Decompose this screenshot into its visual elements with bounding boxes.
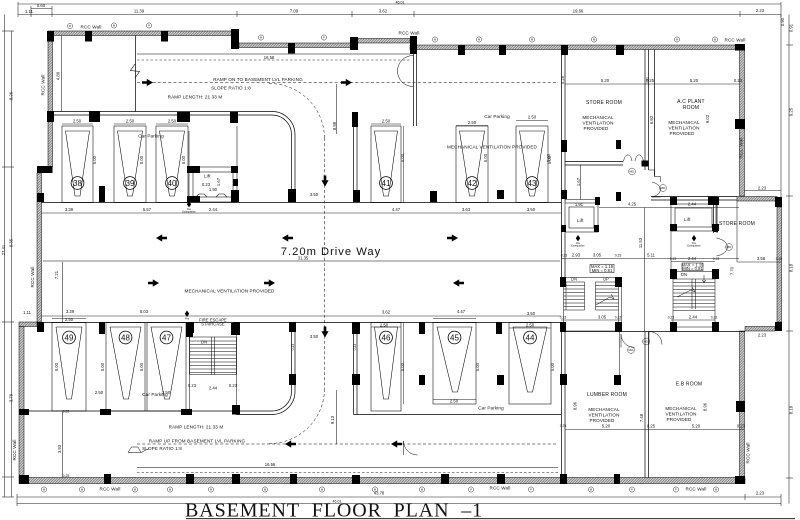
grid bubble letters [43,24,717,492]
svg-text:11.39: 11.39 [134,9,145,14]
svg-text:Extinguisher: Extinguisher [687,245,700,248]
svg-text:3.05: 3.05 [593,253,602,258]
interior structural lines [24,50,745,478]
svg-text:M: M [321,488,323,492]
svg-text:Car Parking: Car Parking [478,406,504,411]
svg-text:PROVIDED: PROVIDED [667,417,693,422]
dimension line right [781,15,793,504]
svg-text:0.90: 0.90 [780,17,785,26]
svg-text:P: P [470,488,472,492]
stall top dim ticks row1 [52,121,551,400]
vestibule wall [413,50,415,127]
door vestibule [398,56,414,87]
svg-text:2.44: 2.44 [688,256,697,261]
svg-text:M: M [69,24,71,28]
svg-text:M01: M01 [643,340,649,344]
corridor east wall [353,112,355,203]
svg-text:2.23: 2.23 [758,333,767,338]
svg-text:0.23: 0.23 [737,424,746,429]
top wall segment B [239,43,356,48]
svg-text:MECHANICAL VENTILATION PROVI: MECHANICAL VENTILATION PROVIDED [185,289,276,294]
svg-text:UP: UP [603,277,609,282]
svg-text:MECHANICAL: MECHANICAL [582,115,614,120]
svg-text:3.93: 3.93 [57,444,62,453]
svg-text:7.09: 7.09 [290,9,299,14]
svg-text:5.00: 5.00 [92,155,97,164]
svg-text:5.11: 5.11 [647,253,656,258]
svg-text:RAMP LENGTH: 21.33 M: RAMP LENGTH: 21.33 M [168,95,223,100]
door pair store room top [624,155,644,162]
svg-text:0.23: 0.23 [670,257,677,261]
dimension labels top [25,0,765,14]
svg-text:0.60: 0.60 [37,3,46,8]
svg-text:5.00: 5.00 [139,155,144,164]
row2 bottom edge / lower lane wall [24,410,232,412]
svg-text:40: 40 [168,179,177,188]
row2 top edge [42,322,562,324]
svg-text:2.23: 2.23 [756,8,765,13]
door ac plant [649,170,661,197]
svg-text:RAMP ON TO BASEMENT LVL P: RAMP ON TO BASEMENT LVL PARKING [213,77,303,82]
svg-text:2.44: 2.44 [209,386,218,391]
svg-text:2.50: 2.50 [450,399,459,404]
mid dim row (drive way) [42,213,562,316]
svg-text:VENTILATION: VENTILATION [668,126,699,131]
row1 stall numbers [71,177,538,190]
svg-text:Car Parking: Car Parking [138,134,164,139]
svg-text:5.20: 5.20 [601,78,610,83]
svg-text:3.50: 3.50 [527,311,536,316]
svg-text:E.B ROOM: E.B ROOM [676,382,703,388]
svg-text:BASEMENT FLOOR PLAN –1: BASEMENT FLOOR PLAN –1 [185,500,483,520]
svg-text:VENTILATION: VENTILATION [582,121,613,126]
svg-text:0.25: 0.25 [647,424,656,429]
svg-text:4.47: 4.47 [457,309,466,314]
fire extinguisher marks [185,201,696,317]
svg-text:M: M [478,38,480,42]
svg-text:2.44: 2.44 [209,207,218,212]
right wall lower [740,331,745,478]
ac plant west wall [644,50,646,171]
svg-text:SLOPE RATIO 1:8: SLOPE RATIO 1:8 [211,86,251,91]
svg-text:0.23: 0.23 [615,316,622,320]
svg-text:0.91: 0.91 [789,23,794,32]
staircase B (right, DN) [673,272,715,328]
svg-text:9.02: 9.02 [705,114,710,123]
svg-text:Fire: Fire [185,318,190,321]
svg-text:RCC Wall: RCC Wall [81,25,102,30]
svg-text:44: 44 [526,333,535,342]
grid bubbles top [67,23,717,42]
svg-text:M: M [113,24,115,28]
car parking labels [138,114,510,411]
svg-text:0.23: 0.23 [560,316,567,320]
svg-text:2.50: 2.50 [528,115,537,120]
lumber room [587,392,627,423]
svg-text:5.00: 5.00 [400,362,405,371]
left wall lower [19,327,24,478]
svg-text:M: M [260,36,262,40]
5.00 rotated stall depth labels [54,153,555,371]
svg-text:RCC Wall: RCC Wall [41,75,46,96]
stall 41 side wall line [403,126,405,404]
svg-text:MIN = 0.81: MIN = 0.81 [592,268,613,273]
svg-text:Lift: Lift [204,174,211,179]
svg-text:39: 39 [126,179,135,188]
svg-text:Extinguisher: Extinguisher [182,211,195,214]
svg-text:2.44: 2.44 [689,315,698,320]
svg-text:0.23: 0.23 [560,424,567,428]
ramp curve top [272,112,295,203]
svg-text:19.66: 19.66 [573,9,584,14]
lift 2 (right section) [671,204,716,231]
svg-text:1.67: 1.67 [216,177,221,186]
svg-text:STAIRCASE: STAIRCASE [201,322,225,327]
svg-text:8.19: 8.19 [789,405,794,414]
svg-text:1.90: 1.90 [209,187,218,192]
svg-text:42: 42 [468,179,477,188]
e.b room [665,382,702,423]
svg-text:6.92: 6.92 [649,115,654,124]
svg-text:0.25: 0.25 [776,257,783,261]
svg-text:0.25: 0.25 [63,474,70,478]
dimension line left 27.41 [2,15,14,498]
svg-text:41: 41 [382,179,391,188]
svg-text:M: M [434,38,436,42]
grid bubbles bottom [41,487,718,492]
svg-text:RCC Wall: RCC Wall [725,38,746,43]
svg-text:M01: M01 [628,348,634,352]
svg-text:0.23: 0.23 [291,344,295,351]
svg-text:38: 38 [73,179,82,188]
svg-text:M: M [714,38,716,42]
svg-text:3.62: 3.62 [379,9,388,14]
svg-text:0.23: 0.23 [646,77,650,84]
right wall upper [740,49,745,196]
svg-text:DN: DN [201,340,207,345]
svg-text:3.50: 3.50 [527,207,536,212]
svg-text:8.96: 8.96 [573,401,578,410]
ramp curve bottom [236,323,295,415]
svg-text:RCC Wall: RCC Wall [12,440,17,461]
svg-text:3.50: 3.50 [310,192,319,197]
svg-text:3.62: 3.62 [382,310,391,315]
store room west wall [561,50,563,203]
svg-text:2.44: 2.44 [688,202,697,207]
svg-text:Extinguisher: Extinguisher [571,245,584,248]
svg-text:1.11: 1.11 [25,9,34,14]
svg-text:M: M [676,38,678,42]
svg-text:0.23: 0.23 [353,344,357,351]
store2 west wall [713,201,715,233]
svg-text:2.23: 2.23 [758,186,767,191]
svg-text:2.50: 2.50 [73,119,82,124]
svg-text:3.58: 3.58 [757,256,766,261]
svg-text:9.13: 9.13 [330,415,335,424]
svg-text:0.23: 0.23 [734,78,743,83]
svg-text:5.20: 5.20 [690,78,699,83]
row2 stall numbers [63,331,537,344]
svg-text:M: M [531,38,533,42]
svg-text:RCC Wall: RCC Wall [399,31,420,36]
svg-text:0.25: 0.25 [560,75,565,84]
svg-text:7.21: 7.21 [54,270,59,279]
svg-text:RAMP LENGTH: 21.33 M: RAMP LENGTH: 21.33 M [169,425,224,430]
svg-text:RCC Wall: RCC Wall [739,138,744,159]
svg-text:4.89: 4.89 [56,71,61,80]
svg-text:3.63: 3.63 [462,207,471,212]
a.c plant room [668,99,704,136]
ramp lane south wall [52,111,272,113]
svg-text:M01: M01 [726,245,732,249]
svg-text:0.23: 0.23 [202,182,211,187]
svg-text:1.91: 1.91 [575,202,584,207]
svg-text:5.00: 5.00 [475,362,480,371]
svg-text:45: 45 [450,333,459,342]
dimension line top overall 46.01 [18,2,781,17]
svg-text:0.25: 0.25 [63,410,70,414]
interior aux lines [63,84,738,478]
svg-text:P: P [631,488,633,492]
stall dims 2.50 row1 [65,115,537,404]
bump top wall [737,197,777,202]
svg-text:VENTILATION: VENTILATION [588,413,619,418]
svg-text:RAMP UP FROM BASEMENT LVL: RAMP UP FROM BASEMENT LVL PARKING [149,439,246,444]
door bubbles M01 [628,168,733,353]
svg-text:RCC Wall: RCC Wall [686,487,707,492]
svg-text:2.50: 2.50 [126,119,135,124]
svg-text:16.56: 16.56 [265,462,276,467]
svg-text:Lift: Lift [577,218,584,223]
store room (top) [582,100,622,131]
svg-text:3.39: 3.39 [66,309,75,314]
svg-text:2.50: 2.50 [95,390,104,395]
svg-text:ROOM: ROOM [683,105,699,111]
svg-text:RCC Wall: RCC Wall [490,486,511,491]
svg-text:9.35: 9.35 [9,238,14,247]
svg-text:Lift: Lift [684,217,691,222]
drive way top edge [42,202,562,204]
svg-text:47: 47 [162,333,171,342]
svg-text:2.50: 2.50 [468,120,477,125]
door store2 [717,238,728,256]
svg-text:RCC Wall: RCC Wall [100,487,121,492]
svg-text:3.39: 3.39 [65,207,74,212]
svg-text:RCC Wall: RCC Wall [746,443,751,464]
svg-text:5.00: 5.00 [181,155,186,164]
svg-text:P: P [675,488,677,492]
bump bottom wall [745,327,775,332]
svg-text:M: M [590,488,592,492]
staircase A (center-right, UP/DN) [564,278,619,332]
svg-text:1.11: 1.11 [23,310,32,315]
svg-text:31.35: 31.35 [298,256,309,261]
svg-text:46: 46 [382,333,391,342]
svg-text:3.05: 3.05 [598,315,607,320]
svg-text:0.23: 0.23 [711,316,718,320]
doors eb room [621,334,635,348]
svg-text:46.01: 46.01 [396,0,405,4]
svg-text:5.20: 5.20 [602,424,611,429]
svg-text:M: M [169,488,171,492]
lift between stalls 40 and 41 [189,126,237,202]
svg-text:5.03: 5.03 [140,309,149,314]
row2 parking stalls 44-49 [52,323,551,412]
fire escape staircase (row2) [190,323,237,412]
svg-text:49: 49 [65,333,74,342]
svg-text:3.50: 3.50 [310,334,319,339]
svg-text:8.18: 8.18 [789,263,794,272]
svg-text:5.00: 5.00 [139,362,144,371]
svg-text:VENTILATION: VENTILATION [665,412,696,417]
svg-text:P: P [323,36,325,40]
left corner step [19,322,37,327]
svg-text:M: M [374,488,376,492]
lumber east wall [644,332,646,478]
svg-text:2.50: 2.50 [162,390,171,395]
lumber west wall [561,332,563,478]
svg-text:P: P [148,24,150,28]
svg-text:2.50: 2.50 [526,323,535,328]
svg-text:M01: M01 [660,186,666,190]
doors (swing arcs) [398,56,728,456]
top wall segment A [48,31,237,36]
svg-text:M: M [421,488,423,492]
svg-text:0.23: 0.23 [188,383,197,388]
svg-text:LUMBER ROOM: LUMBER ROOM [587,392,627,398]
svg-text:0.23: 0.23 [713,257,720,261]
svg-text:MECHANICAL: MECHANICAL [588,407,620,412]
svg-text:5.00: 5.00 [483,153,488,162]
door bottom lane [404,441,418,455]
svg-text:M: M [264,488,266,492]
svg-text:P: P [530,488,532,492]
svg-text:PROVIDED: PROVIDED [670,131,696,136]
row1 parking stalls 38-43 [62,126,548,203]
svg-text:9.25: 9.25 [789,107,794,116]
svg-text:7.20m Drive Way: 7.20m Drive Way [281,246,381,258]
ramp upper lane lines [62,36,559,473]
svg-text:5.00: 5.00 [547,155,552,164]
svg-text:7.70: 7.70 [730,266,735,275]
left wall middle [37,173,42,322]
svg-text:4.25: 4.25 [628,202,637,207]
lift 1 (right section) [565,200,598,233]
svg-text:PROVIDED: PROVIDED [590,418,616,423]
svg-text:7.48: 7.48 [639,413,644,422]
svg-text:5.00: 5.00 [100,362,105,371]
dimension line bottom [17,494,781,506]
bold arrows [142,79,153,86]
svg-text:3.79: 3.79 [9,393,14,402]
svg-text:48: 48 [121,333,130,342]
svg-text:M: M [134,488,136,492]
svg-text:43: 43 [528,179,537,188]
top-right dim line [561,84,781,430]
svg-text:Car Parking: Car Parking [484,114,510,119]
svg-text:RCC Wall: RCC Wall [30,267,35,288]
svg-text:5.00: 5.00 [550,362,555,371]
svg-text:5.00: 5.00 [54,362,59,371]
svg-text:M: M [43,488,45,492]
svg-text:M: M [210,488,212,492]
svg-text:M: M [715,488,717,492]
svg-text:PROVIDED: PROVIDED [584,126,610,131]
wall segment over lift2 [651,196,683,198]
svg-text:MIN = 0.81: MIN = 0.81 [682,266,703,271]
svg-text:STORE ROOM: STORE ROOM [586,100,622,106]
top wall segment D [410,45,740,50]
svg-text:MECHANICAL: MECHANICAL [668,120,700,125]
svg-text:DN: DN [681,272,687,277]
store room south wall [565,161,623,163]
svg-text:0.23: 0.23 [229,383,238,388]
svg-text:2.50: 2.50 [168,119,177,124]
bump right wall [777,207,782,322]
svg-text:11.53: 11.53 [638,237,643,248]
svg-text:4.47: 4.47 [392,207,401,212]
svg-text:M01: M01 [629,170,635,174]
top wall segment C [356,39,410,44]
svg-text:2.50: 2.50 [382,119,391,124]
svg-text:27.41: 27.41 [1,244,6,255]
svg-text:0.23: 0.23 [615,254,622,258]
svg-text:0.23: 0.23 [668,316,675,320]
svg-text:M: M [593,38,595,42]
svg-text:MECHANICAL: MECHANICAL [665,406,697,411]
svg-text:SLOPE RATIO 1:8: SLOPE RATIO 1:8 [142,446,182,451]
svg-text:5.57: 5.57 [143,207,152,212]
svg-text:5.20: 5.20 [692,424,701,429]
svg-text:2.50: 2.50 [65,317,74,322]
svg-text:DN: DN [571,277,577,282]
svg-text:2.93: 2.93 [572,253,581,258]
svg-text:16.58: 16.58 [264,55,275,60]
svg-text:0.23: 0.23 [561,254,568,258]
bottom wall [19,478,745,484]
svg-text:8.26: 8.26 [9,91,14,100]
svg-text:5.00: 5.00 [400,153,405,162]
svg-text:M: M [81,488,83,492]
svg-text:8.96: 8.96 [703,402,708,411]
svg-text:MECHANICAL VENTILATION PROVI: MECHANICAL VENTILATION PROVIDED [447,145,538,150]
left wall upper [48,36,53,168]
svg-text:2.23: 2.23 [756,491,765,496]
